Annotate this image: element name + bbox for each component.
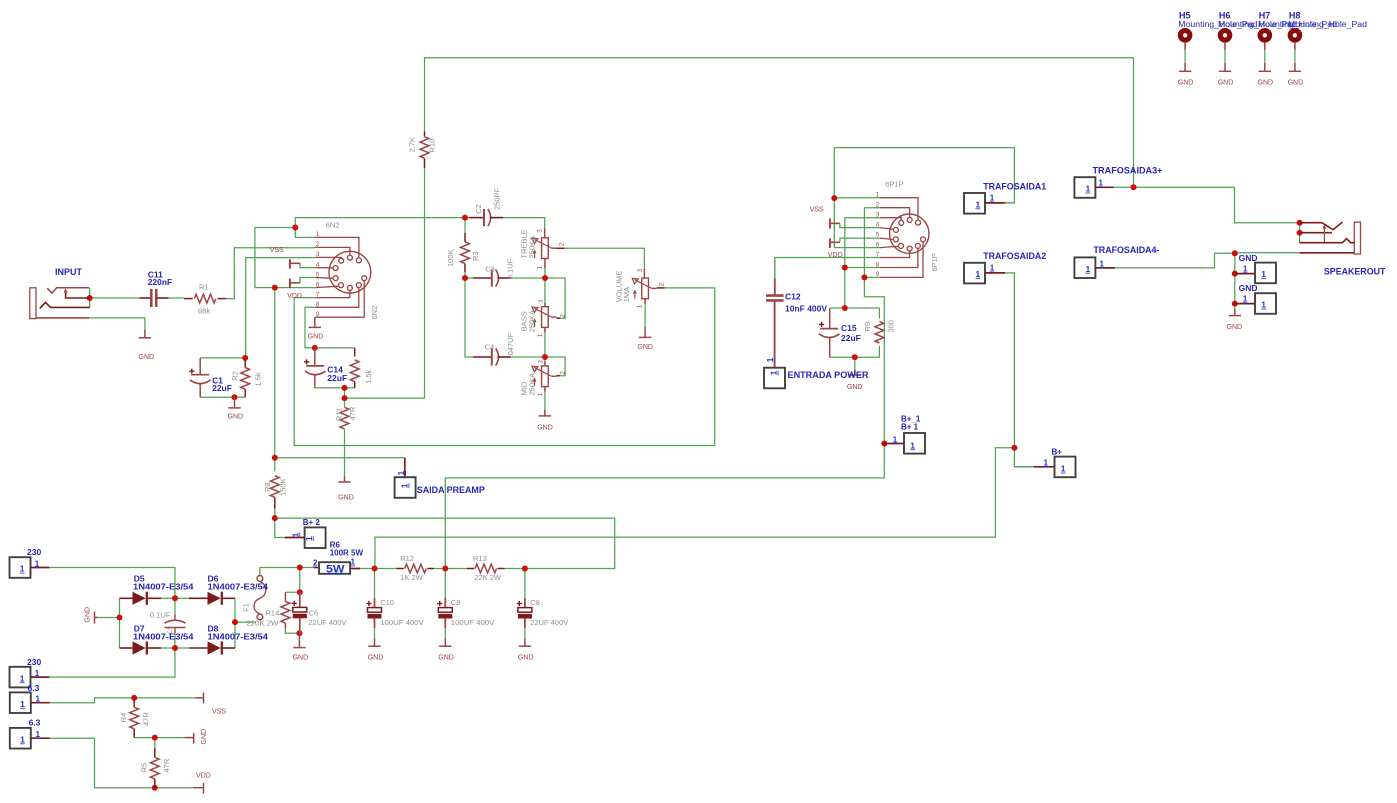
svg-text:1MA: 1MA bbox=[622, 287, 631, 302]
junction R8 top bbox=[272, 455, 278, 461]
svg-text:1: 1 bbox=[766, 357, 775, 362]
wire R8 bottom to B+_2 stub bbox=[275, 509, 285, 538]
junction R11 top bbox=[342, 395, 348, 401]
junction bridge row1 bbox=[172, 595, 178, 601]
wire treble pin1 to bass pin3 bbox=[544, 268, 546, 303]
svg-text:100UF 400V: 100UF 400V bbox=[451, 618, 495, 627]
svg-text:R12: R12 bbox=[400, 554, 414, 563]
svg-text:C12: C12 bbox=[785, 291, 801, 301]
wire R10 bottom row bbox=[345, 168, 425, 398]
ground GND R11 bbox=[338, 477, 350, 483]
svg-text:5W: 5W bbox=[326, 563, 345, 575]
svg-text:1: 1 bbox=[397, 470, 406, 475]
svg-text:8: 8 bbox=[316, 301, 320, 308]
svg-text:1: 1 bbox=[537, 392, 544, 396]
svg-text:0.1UF: 0.1UF bbox=[150, 610, 171, 619]
junction input jack output bbox=[87, 295, 93, 301]
wire C14 R7 bottom rail bbox=[315, 387, 355, 389]
ground GND C15 bbox=[849, 370, 861, 376]
wire 6N2 pin6 row bbox=[255, 287, 315, 289]
wire bridge right rail bbox=[234, 598, 236, 648]
mounting hole H5 pad bbox=[1178, 28, 1193, 71]
svg-text:6.3: 6.3 bbox=[29, 718, 41, 728]
wire 6N2 pin8 to C14 top bbox=[305, 307, 315, 348]
fuse F1 bbox=[254, 576, 266, 620]
resistor R13 bbox=[467, 564, 505, 573]
plus C1 bbox=[189, 369, 194, 374]
svg-text:6P1P: 6P1P bbox=[885, 180, 903, 189]
wire input jack tip-ring bbox=[89, 288, 91, 308]
junction treble pin1 bbox=[542, 275, 548, 281]
wire B+ node to filter row bbox=[375, 448, 1014, 569]
wire TRAFOSAIDA3+ row to speaker jack bbox=[1114, 187, 1300, 222]
junction C15 bottom bbox=[852, 354, 858, 360]
svg-text:SPEAKEROUT: SPEAKEROUT bbox=[1324, 267, 1386, 278]
svg-text:R5: R5 bbox=[140, 763, 149, 773]
svg-text:R4: R4 bbox=[119, 713, 128, 723]
svg-text:1: 1 bbox=[893, 435, 898, 444]
svg-text:250KA: 250KA bbox=[527, 373, 536, 396]
ground GND C10 bbox=[368, 639, 380, 647]
capacitor C5 0.1UF bridge bbox=[165, 614, 186, 633]
connector B+ box bbox=[1034, 457, 1076, 478]
svg-text:GND: GND bbox=[308, 334, 324, 341]
wire R3 to C3 row bbox=[464, 221, 466, 233]
svg-text:1: 1 bbox=[1061, 464, 1066, 474]
connector TRAFOSAIDA2 box bbox=[964, 263, 1005, 284]
svg-text:4: 4 bbox=[316, 261, 320, 268]
connector 6.3 B box bbox=[10, 728, 50, 749]
ground GND mid pot bbox=[539, 410, 551, 416]
svg-text:1: 1 bbox=[976, 199, 981, 209]
svg-text:1: 1 bbox=[1044, 459, 1049, 468]
svg-text:1K 2W: 1K 2W bbox=[400, 573, 423, 582]
svg-text:GND: GND bbox=[1288, 80, 1304, 87]
junction VSS 6P1P pin1 bbox=[831, 195, 837, 201]
svg-text:22uF: 22uF bbox=[841, 333, 861, 343]
junction speaker ring bbox=[1297, 230, 1303, 236]
svg-text:100K: 100K bbox=[446, 249, 455, 267]
svg-text:VSS: VSS bbox=[810, 207, 824, 214]
svg-text:7: 7 bbox=[316, 291, 320, 298]
wire R9 right branch bottom bbox=[878, 346, 880, 357]
svg-text:VSS: VSS bbox=[212, 709, 226, 716]
plus C6 bbox=[292, 601, 297, 606]
ground GND C6 bbox=[293, 633, 305, 647]
svg-text:1: 1 bbox=[990, 264, 995, 273]
svg-text:3: 3 bbox=[637, 268, 644, 272]
junction bridge row2 bbox=[172, 645, 178, 651]
tube U1 6N2 pin bumps bbox=[333, 255, 367, 290]
svg-text:GND: GND bbox=[85, 607, 92, 623]
capacitor C15 bbox=[819, 309, 840, 357]
svg-text:300: 300 bbox=[887, 320, 896, 333]
wire H7 stem bbox=[1264, 50, 1266, 63]
ground GND 6N2 pin9 bbox=[309, 317, 321, 327]
connector ENTRADA POWER box bbox=[764, 302, 785, 389]
svg-text:GND: GND bbox=[1227, 324, 1243, 331]
svg-text:B+ 2: B+ 2 bbox=[303, 518, 321, 527]
junction GND net top bbox=[1232, 250, 1238, 256]
svg-text:TRAFOSAIDA2: TRAFOSAIDA2 bbox=[983, 251, 1046, 261]
svg-text:1: 1 bbox=[36, 730, 41, 739]
connector 230 B box bbox=[10, 667, 50, 688]
svg-text:5: 5 bbox=[876, 231, 880, 238]
ground GND frames symbol bbox=[1229, 309, 1241, 316]
plus C10 bbox=[366, 601, 371, 606]
wire TRAFOSAIDA1 stub green bbox=[1005, 202, 1014, 204]
wire R4 R5 link bbox=[154, 738, 156, 748]
pin numbers 6N2 bbox=[316, 231, 320, 318]
svg-text:1N4007-E3/54: 1N4007-E3/54 bbox=[208, 632, 269, 642]
plus C14 bbox=[304, 359, 309, 364]
connector GND frame 2 box bbox=[1235, 293, 1276, 314]
wire C11 to R1 bbox=[169, 297, 185, 299]
svg-text:2: 2 bbox=[876, 202, 880, 209]
wire mid pin1 to GND bbox=[544, 392, 546, 410]
resistor R3 bbox=[461, 233, 470, 272]
wire R13 to C8 bbox=[505, 568, 525, 570]
svg-text:1: 1 bbox=[351, 558, 356, 567]
wire 6P1P grid cap lower to pin5 bbox=[840, 238, 880, 242]
svg-text:6: 6 bbox=[316, 281, 320, 288]
wire GND node stem bbox=[1234, 304, 1236, 309]
svg-text:68k: 68k bbox=[198, 306, 210, 315]
svg-text:250KA: 250KA bbox=[527, 236, 536, 259]
svg-text:C2: C2 bbox=[474, 204, 483, 214]
ground GND C9 bbox=[439, 639, 451, 647]
capacitor C1 bbox=[190, 358, 211, 397]
wire R4 GND row bbox=[134, 737, 184, 739]
svg-text:GND: GND bbox=[1218, 80, 1234, 87]
wire 6P1P pin6 row bbox=[834, 247, 880, 249]
svg-text:C15: C15 bbox=[841, 323, 857, 333]
svg-text:1: 1 bbox=[1100, 259, 1105, 268]
wire input jack sleeve to GND bbox=[89, 318, 145, 333]
svg-text:1: 1 bbox=[910, 440, 915, 450]
svg-text:GND: GND bbox=[228, 414, 244, 421]
svg-text:C10: C10 bbox=[380, 598, 394, 607]
connector J-INPUT jack bbox=[30, 288, 90, 319]
wire C14 R7 top rail bbox=[315, 347, 355, 349]
junction R14 C6 top bbox=[297, 589, 303, 595]
wire bridge row2 segments bbox=[161, 647, 189, 649]
svg-text:1: 1 bbox=[1086, 184, 1091, 194]
wire 230 B to bridge bbox=[49, 648, 175, 677]
svg-text:R11: R11 bbox=[335, 408, 344, 421]
tube U2 6P1P envelope bbox=[890, 214, 929, 253]
resistor R14 bbox=[281, 592, 290, 628]
ground GND bridge left bbox=[95, 612, 98, 624]
wire C6 bottom green bbox=[295, 632, 299, 634]
wire C15 left branch bbox=[829, 308, 831, 309]
svg-text:VSS: VSS bbox=[270, 247, 284, 254]
wire top rail R10 to TRAFOSAIDA3+ bbox=[425, 58, 1134, 188]
resistor R6 5W box bbox=[314, 562, 360, 574]
svg-text:GND: GND bbox=[537, 425, 553, 432]
capacitor C8 bbox=[518, 598, 532, 628]
svg-text:1: 1 bbox=[1261, 300, 1266, 310]
wire B+_2 row to filter end bbox=[275, 518, 615, 568]
junction GND frame 2 bbox=[1232, 301, 1238, 307]
wire volume pin1 to GND bbox=[644, 304, 646, 327]
svg-text:1: 1 bbox=[990, 194, 995, 203]
svg-text:R14: R14 bbox=[266, 609, 280, 618]
svg-text:GND: GND bbox=[637, 344, 653, 351]
wire bridge left rail bbox=[119, 598, 121, 648]
capacitor C10 bbox=[368, 598, 382, 628]
tube U1 6N2 envelope bbox=[329, 251, 371, 293]
pin numbers 6P1P bbox=[876, 192, 880, 279]
supply VSS bar bottom bbox=[195, 693, 203, 704]
svg-text:2: 2 bbox=[316, 241, 320, 248]
svg-text:1.5k: 1.5k bbox=[364, 369, 373, 383]
wire C3 right to treble pin1 node bbox=[511, 277, 545, 279]
resistor R12 bbox=[396, 564, 434, 573]
svg-text:1: 1 bbox=[20, 564, 25, 574]
tube U1 6N2 pin leads bbox=[315, 237, 364, 317]
junction B+ bbox=[1011, 445, 1017, 451]
diode D7 bbox=[120, 641, 162, 654]
svg-text:TRAFOSAIDA4-: TRAFOSAIDA4- bbox=[1093, 245, 1159, 255]
svg-text:100UF 400V: 100UF 400V bbox=[380, 618, 424, 627]
svg-text:GND: GND bbox=[1178, 80, 1194, 87]
svg-text:GND: GND bbox=[1239, 253, 1258, 263]
tube U2 6P1P grid cap upper bbox=[830, 218, 840, 228]
svg-text:1N4007-E3/54: 1N4007-E3/54 bbox=[208, 582, 269, 592]
svg-text:6N2: 6N2 bbox=[370, 306, 379, 320]
junction bridge gnd bbox=[117, 615, 123, 621]
svg-text:1: 1 bbox=[769, 370, 779, 375]
svg-text:1: 1 bbox=[316, 231, 320, 238]
svg-text:C3: C3 bbox=[485, 265, 495, 274]
svg-text:1: 1 bbox=[637, 304, 644, 308]
svg-text:Mounting_Hole_Pad: Mounting_Hole_Pad bbox=[1288, 20, 1367, 29]
connector 230 A box bbox=[10, 557, 50, 578]
wire R3 column to C4 row bbox=[465, 278, 473, 357]
svg-text:220nF: 220nF bbox=[148, 277, 173, 287]
wire TRAFOSAIDA2 to B+ node bbox=[1005, 273, 1014, 448]
ground GND input jack bbox=[139, 330, 151, 338]
svg-text:2: 2 bbox=[560, 371, 567, 375]
resistor R5 bbox=[150, 748, 159, 788]
svg-text:1: 1 bbox=[1086, 264, 1091, 274]
wire bridge GND tap bbox=[98, 617, 120, 619]
wire 6P1P pin1 row bbox=[834, 197, 880, 199]
resistor R11 bbox=[340, 407, 349, 429]
connector GND frame 1 box bbox=[1235, 263, 1276, 284]
junction 6N2 plate1 node bbox=[292, 225, 298, 231]
junction C9 top bbox=[442, 566, 448, 572]
connector TRAFOSAIDA3+ box bbox=[1074, 177, 1113, 198]
svg-text:VDD: VDD bbox=[828, 252, 843, 259]
connector 6.3 A box bbox=[10, 692, 50, 713]
svg-text:1: 1 bbox=[291, 532, 300, 537]
svg-text:22UF 400V: 22UF 400V bbox=[309, 618, 347, 627]
wire C12 top bbox=[774, 258, 776, 279]
ground GND volume pot bbox=[639, 327, 651, 338]
potentiometer BASS bbox=[532, 303, 560, 333]
junction R5 bottom VDD bbox=[152, 785, 158, 791]
svg-text:1N4007-E3/54: 1N4007-E3/54 bbox=[133, 582, 194, 592]
junction bridge right bbox=[232, 619, 238, 625]
svg-text:GND: GND bbox=[201, 729, 208, 745]
svg-text:C8: C8 bbox=[530, 598, 540, 607]
svg-text:SAIDA PREAMP: SAIDA PREAMP bbox=[417, 485, 485, 495]
svg-text:GND: GND bbox=[338, 495, 354, 502]
wire 6N2 pin1 drop bbox=[295, 218, 315, 238]
svg-text:VDD: VDD bbox=[287, 293, 302, 300]
svg-text:3: 3 bbox=[537, 360, 544, 364]
pot pin labels treble bbox=[536, 229, 565, 270]
svg-text:47R: 47R bbox=[162, 758, 171, 772]
tube U2 6P1P grid cap lower bbox=[830, 238, 840, 248]
svg-text:3: 3 bbox=[536, 229, 543, 233]
junction C8 top bbox=[522, 566, 528, 572]
svg-text:220K 2W: 220K 2W bbox=[246, 618, 279, 627]
plus C8 bbox=[517, 601, 522, 606]
pot pin labels volume bbox=[637, 268, 666, 308]
wire C1 R2 top rail bbox=[200, 357, 245, 359]
connector B+_2 box bbox=[285, 527, 326, 548]
wire TRAFOSAIDA4- to GND node bbox=[1115, 253, 1235, 268]
svg-text:8: 8 bbox=[876, 261, 880, 268]
wire bass pin1 to mid pin3 bbox=[544, 333, 546, 362]
svg-text:R1: R1 bbox=[199, 283, 209, 292]
svg-text:B+: B+ bbox=[1052, 448, 1063, 457]
svg-text:22uF: 22uF bbox=[327, 373, 347, 383]
svg-text:TRAFOSAIDA1: TRAFOSAIDA1 bbox=[983, 181, 1046, 191]
wire C4 right to mid pin3 node bbox=[511, 356, 545, 358]
svg-text:H7: H7 bbox=[1259, 11, 1271, 21]
svg-text:1: 1 bbox=[1099, 178, 1104, 187]
svg-text:4: 4 bbox=[876, 221, 880, 228]
wire 5W box to R12 bbox=[360, 568, 396, 570]
wire bridge row1 segments bbox=[161, 597, 189, 599]
svg-text:9: 9 bbox=[316, 311, 320, 318]
svg-text:2: 2 bbox=[559, 242, 566, 246]
svg-text:C6: C6 bbox=[309, 609, 319, 618]
wire GND node frames vertical bbox=[1234, 253, 1236, 303]
svg-text:250KA: 250KA bbox=[527, 310, 536, 333]
svg-text:1: 1 bbox=[876, 192, 880, 199]
junction R8 bottom bbox=[272, 515, 278, 521]
wire C1 R2 bottom rail bbox=[200, 396, 245, 398]
wire C15 R9 bottom rail bbox=[830, 356, 880, 358]
svg-text:150K: 150K bbox=[279, 478, 288, 496]
svg-text:GND: GND bbox=[139, 354, 155, 361]
wire C2 right to treble pin3 bbox=[503, 218, 544, 229]
svg-text:H5: H5 bbox=[1179, 11, 1191, 21]
wire B+ stub bbox=[1014, 448, 1034, 467]
wire R8 net vertical bbox=[274, 458, 276, 472]
wire 6.3 A to VSS bbox=[50, 698, 195, 703]
wire 6P1P grid cap upper to pin4 bbox=[840, 223, 880, 227]
svg-text:H6: H6 bbox=[1219, 11, 1231, 21]
svg-text:R3: R3 bbox=[471, 251, 480, 261]
junction B+_1 bbox=[881, 441, 887, 447]
junction C6 bottom bbox=[296, 630, 302, 636]
wire H6 stem bbox=[1224, 50, 1226, 63]
resistor R1 bbox=[184, 294, 226, 303]
capacitor C14 bbox=[305, 348, 326, 388]
svg-text:10nF 400V: 10nF 400V bbox=[785, 303, 827, 313]
junction C1 top bbox=[242, 355, 248, 361]
wire 6N2 pin7 to volume wiper bbox=[294, 288, 715, 446]
tube U1 6N2 grid cap upper bbox=[290, 259, 300, 269]
svg-text:GND: GND bbox=[847, 384, 863, 391]
svg-text:6.3: 6.3 bbox=[28, 683, 40, 693]
mounting hole H6 pad bbox=[1218, 28, 1233, 71]
wire bridge center cap bbox=[174, 598, 176, 614]
wire bass loop to wiper bbox=[545, 278, 565, 318]
svg-text:250PF: 250PF bbox=[493, 187, 502, 210]
potentiometer VOLUME bbox=[632, 269, 664, 304]
wire 6P1P pin3 to pin8 to C15 top bbox=[845, 218, 880, 308]
junction C2 left bbox=[462, 215, 468, 221]
wire speaker tip to ring bbox=[1299, 223, 1301, 243]
svg-text:1.5k: 1.5k bbox=[253, 372, 262, 386]
wire R9 right branch top bbox=[878, 308, 880, 319]
diode D6 bbox=[189, 592, 235, 605]
mounting hole H8 pad bbox=[1288, 28, 1303, 71]
capacitor C3 bbox=[473, 269, 511, 286]
junction R3 bottom bbox=[462, 275, 468, 281]
wire bridge to F1 bottom bbox=[235, 621, 256, 623]
svg-text:2.7K: 2.7K bbox=[408, 137, 417, 152]
svg-text:2: 2 bbox=[659, 282, 666, 286]
svg-text:1: 1 bbox=[20, 734, 25, 744]
tube U2 6P1P pin leads bbox=[880, 198, 923, 278]
svg-text:22K 2W: 22K 2W bbox=[474, 573, 502, 582]
svg-text:2: 2 bbox=[313, 559, 318, 568]
wire F1 R14 C6 top bbox=[285, 568, 299, 593]
junction 6P1P pin8 bbox=[842, 265, 848, 271]
svg-text:6P1P: 6P1P bbox=[930, 253, 939, 271]
junction C14 bottom bbox=[342, 385, 348, 391]
wire 6P1P pin2 to pin9 to B+_1 bbox=[445, 208, 884, 569]
svg-text:1: 1 bbox=[36, 695, 41, 704]
capacitor C6 bbox=[293, 592, 307, 633]
svg-text:C5: C5 bbox=[168, 626, 174, 634]
diode D8 bbox=[189, 641, 235, 654]
svg-text:R9: R9 bbox=[863, 322, 872, 332]
wire C9 column bbox=[444, 569, 446, 599]
svg-text:C9: C9 bbox=[451, 598, 461, 607]
svg-text:5: 5 bbox=[316, 271, 320, 278]
wire 6N2 grid cap lower to pin5 bbox=[300, 278, 315, 283]
svg-text:22UF 400V: 22UF 400V bbox=[530, 618, 568, 627]
capacitor C4 bbox=[473, 348, 511, 365]
wire C10 column bbox=[374, 569, 376, 599]
svg-text:VDD: VDD bbox=[196, 773, 211, 780]
junction C10 top bbox=[372, 566, 378, 572]
wire GND node to speaker sleeve bbox=[1235, 252, 1300, 254]
svg-text:47R: 47R bbox=[348, 406, 357, 420]
junction TRAFOSAIDA3+ bbox=[1131, 184, 1137, 190]
wire R14 bottom bbox=[285, 628, 299, 633]
svg-text:1: 1 bbox=[20, 673, 25, 683]
wire 6P1P pin7 VDD row to C12 bbox=[775, 258, 880, 279]
connector TRAFOSAIDA1 box bbox=[964, 193, 1005, 214]
capacitor C11 bbox=[140, 289, 169, 307]
svg-text:1: 1 bbox=[1261, 269, 1266, 279]
junction C14 top bbox=[312, 345, 318, 351]
wire C15 bottom to GND bbox=[854, 357, 856, 369]
plus C15 bbox=[819, 322, 824, 327]
potentiometer MID bbox=[532, 361, 560, 392]
wire 6P1P pin8 row bbox=[845, 267, 880, 269]
